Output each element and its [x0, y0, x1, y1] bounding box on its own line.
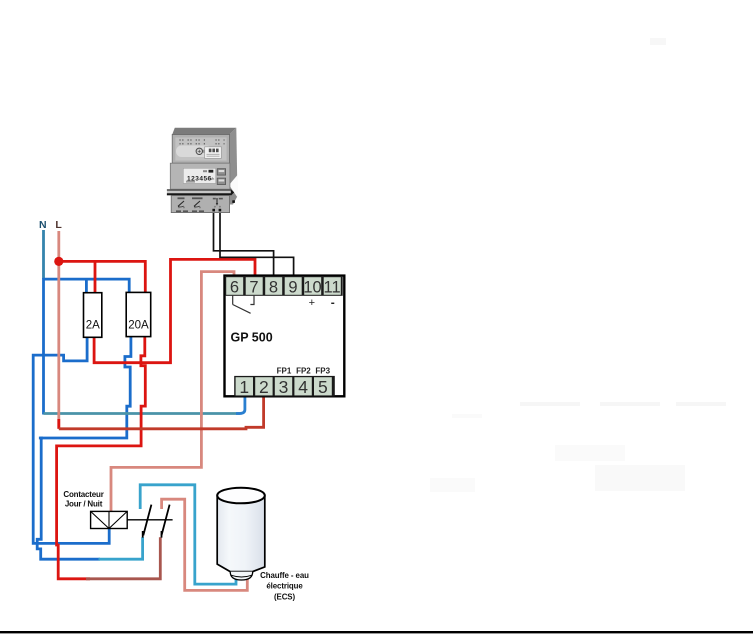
svg-text:FP3: FP3 [315, 367, 330, 376]
svg-text:L: L [55, 219, 62, 231]
svg-text:Contacteur: Contacteur [63, 490, 103, 499]
svg-text:5: 5 [318, 377, 328, 397]
svg-text:GP 500: GP 500 [231, 331, 273, 345]
svg-text:N: N [39, 219, 47, 231]
svg-text:Chauffe - eau: Chauffe - eau [260, 571, 309, 580]
svg-text:8: 8 [269, 278, 278, 296]
svg-text:FP1: FP1 [277, 367, 292, 376]
svg-text:11: 11 [324, 278, 341, 296]
svg-text:Jour / Nuit: Jour / Nuit [65, 500, 103, 509]
svg-text:1: 1 [239, 377, 249, 397]
svg-text:électrique: électrique [266, 582, 303, 591]
svg-text:4: 4 [298, 377, 308, 397]
svg-text:10: 10 [303, 278, 321, 296]
svg-text:(ECS): (ECS) [274, 593, 295, 602]
svg-text:+: + [309, 297, 315, 309]
svg-text:2A: 2A [86, 320, 100, 332]
svg-text:7: 7 [249, 278, 258, 296]
svg-text:FP2: FP2 [296, 367, 311, 376]
svg-text:20A: 20A [128, 320, 149, 332]
svg-text:-: - [331, 296, 335, 310]
svg-text:6: 6 [230, 278, 239, 296]
svg-text:3: 3 [279, 377, 289, 397]
svg-text:kWh: kWh [208, 177, 215, 181]
svg-text:2: 2 [259, 377, 269, 397]
svg-text:9: 9 [288, 278, 297, 296]
